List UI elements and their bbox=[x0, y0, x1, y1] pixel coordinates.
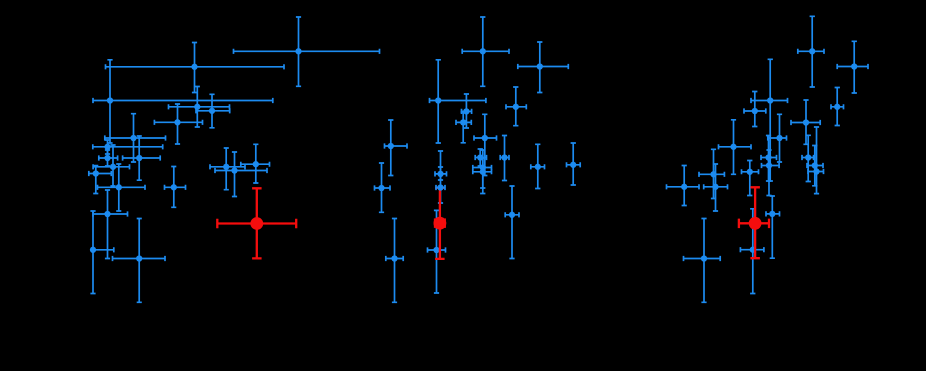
blue data point P3-16 with error bars bbox=[704, 164, 728, 211]
blue data point P1-13 with error bars bbox=[215, 152, 267, 197]
blue data point P2-4 with error bars bbox=[506, 87, 526, 126]
blue data point P3-13 with error bars bbox=[808, 127, 824, 194]
blue data point P3-9 with error bars bbox=[761, 136, 777, 182]
blue data point P1-4 with error bars bbox=[169, 87, 230, 128]
blue data point P2-20 y-error bar bbox=[438, 167, 443, 203]
blue data point P3-4 with error bars bbox=[831, 88, 844, 126]
blue data point P2-9 with error bars bbox=[475, 149, 486, 166]
blue data point P1-8 with error bars bbox=[93, 140, 163, 154]
blue data point P1-14 with error bars bbox=[241, 144, 270, 183]
blue data point P3-11 with error bars bbox=[762, 150, 780, 196]
blue data point P3-17 with error bars bbox=[766, 196, 780, 258]
blue data point P1-16 with error bars bbox=[98, 164, 146, 211]
blue data point P3-15 with error bars bbox=[699, 149, 724, 198]
blue data point P2-16 with error bars bbox=[667, 166, 700, 206]
blue data point P1-6 with error bars bbox=[154, 104, 202, 144]
blue data point P3-12 with error bars bbox=[807, 146, 823, 186]
blue data point P2-17 with error bars bbox=[505, 186, 519, 259]
blue data point P2-13 with error bars bbox=[473, 150, 492, 194]
blue data point P1-18 with error bars bbox=[93, 190, 128, 259]
blue data point P2-5 with error bars bbox=[462, 94, 472, 128]
blue data point P1-20 with error bars bbox=[113, 219, 166, 303]
blue data point P1-1 with error bars bbox=[234, 17, 380, 86]
blue data point P3-19 with error bars bbox=[684, 219, 721, 303]
blue data point P1-15 with error bars bbox=[89, 166, 112, 194]
blue data point P3-2 with error bars bbox=[837, 41, 868, 93]
blue data point P3-7 with error bars bbox=[768, 114, 787, 162]
red highlighted data point R1 with error bars bbox=[217, 188, 296, 258]
blue data point P2-1 with error bars bbox=[462, 17, 509, 86]
red highlighted data point R3 with error bars bbox=[739, 187, 769, 258]
blue data point P2-2 with error bars bbox=[518, 42, 569, 93]
blue data point P2-8 with error bars bbox=[385, 120, 408, 176]
blue data point P1-5 with error bars bbox=[196, 94, 230, 128]
blue data point P2-19 with error bars bbox=[386, 219, 403, 303]
blue data point P3-8 with error bars bbox=[719, 120, 752, 175]
blue data point P2-7 with error bars bbox=[474, 114, 497, 175]
blue data point P3-10 with error bars bbox=[802, 135, 814, 181]
red highlighted data point R2 with error bars bbox=[434, 188, 447, 259]
blue data point P2-10 with error bars bbox=[500, 136, 509, 181]
blue data point P3-6 with error bars bbox=[791, 100, 820, 144]
blue data point P3-1 with error bars bbox=[798, 16, 824, 87]
blue data point P2-15 with error bars bbox=[375, 163, 391, 212]
blue data point P2-14 with error bars bbox=[473, 158, 492, 188]
blue data point P2-6 with error bars bbox=[456, 112, 471, 143]
blue data point P2-12 with error bars bbox=[567, 143, 581, 185]
blue data point P2-20 with error bars bbox=[435, 151, 447, 180]
blue data point P1-11 with error bars bbox=[93, 145, 129, 186]
blue data point P3-3 with error bars bbox=[751, 59, 788, 181]
blue data point P1-12 with error bars bbox=[210, 148, 245, 190]
blue data point P3-14 with error bars bbox=[742, 161, 759, 196]
blue data point P2-3 with error bars bbox=[430, 60, 486, 143]
blue data point P1-3 with error bars bbox=[93, 60, 273, 143]
blue data point P1-10 with error bars bbox=[123, 136, 161, 180]
blue data point P2-11 with error bars bbox=[531, 144, 545, 188]
blue data point P2-18 with error bars bbox=[428, 210, 446, 293]
blue data point P1-17 with error bars bbox=[165, 167, 186, 208]
blue data point P1-7 with error bars bbox=[105, 114, 166, 162]
blue data point P2-20 x-error bar and marker (drawn above red) bbox=[436, 184, 445, 190]
blue data point P3-5 with error bars bbox=[744, 92, 766, 127]
blue data point P1-19 with error bars bbox=[90, 211, 114, 294]
blue data point P1-2 with error bars bbox=[106, 43, 285, 93]
blue data point P3-18 with error bars bbox=[740, 209, 764, 294]
blue data point P1-9 with error bars bbox=[99, 150, 118, 166]
